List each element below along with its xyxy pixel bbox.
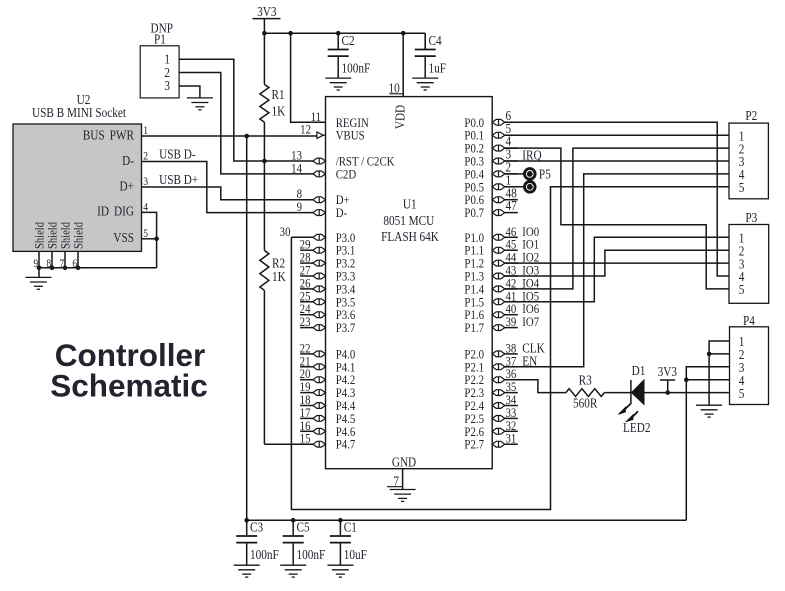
wire IO2 to P3.3 [505,262,729,264]
wire P0.2 to P3.5 [505,148,729,289]
svg-text:P2.7: P2.7 [464,437,484,452]
svg-text:30: 30 [280,224,291,239]
svg-text:LED2: LED2 [623,420,650,435]
pin 24 stub [300,314,315,316]
wire EN to P2.4 [505,174,729,367]
wire C4 feed [424,33,426,49]
svg-text:560R: 560R [573,396,598,411]
wire IRQ to P2.3 [505,160,729,162]
pin 10 label [389,81,404,96]
pin 22 symbol [313,351,326,357]
node junction VBUS/C3 [244,134,249,139]
svg-text:P1: P1 [154,32,166,47]
svg-text:P4: P4 [743,313,755,328]
pin 5 symbol [492,132,505,138]
wire VBUS drop to C3 [246,136,248,520]
svg-text:5: 5 [739,180,745,195]
wire R2 to P4.7 [264,443,315,445]
wire GND pin 7 [402,469,404,490]
svg-text:USB D-: USB D- [159,147,196,162]
resistor R1 1K [260,33,285,161]
pin 42 symbol [492,286,505,292]
svg-text:C2: C2 [342,33,355,48]
pin 25 stub [300,301,315,303]
wire P4.1 to ground [709,341,729,405]
pin 2 stub [505,173,518,175]
pin 38 stub [505,353,518,355]
pin 37 stub [505,366,518,368]
svg-text:Shield: Shield [58,222,72,249]
pin 44 symbol [492,260,505,266]
svg-text:23: 23 [300,314,311,329]
wire 3V3 rail [264,32,425,34]
power symbol 3V3 (LED) [658,364,677,392]
node junction 3V3/LED [665,390,670,395]
svg-text:VSS: VSS [113,230,134,245]
pin 31 stub [505,443,518,445]
U2 shield pin 8 [46,251,52,270]
svg-text:R1: R1 [272,87,285,102]
pin 30 stub [291,236,315,238]
svg-text:31: 31 [506,431,517,446]
U2 shield pin 7 [59,251,65,270]
node junction 3V3/REGIN [288,31,293,36]
wire P4.2 to ground [709,353,729,355]
pin 5 stub [505,134,518,136]
svg-text:47: 47 [506,198,517,213]
wire shield bus [39,267,157,269]
svg-text:39: 39 [506,314,517,329]
svg-text:P2: P2 [745,108,757,123]
pin 47 stub [505,212,518,214]
pin 46 symbol [492,234,505,240]
node shield 6 [76,266,81,271]
resistor R3 560R [566,372,605,410]
connector P5 pad 2 [525,182,536,193]
svg-text:USB D+: USB D+ [159,172,198,187]
pin 26 stub [300,288,315,290]
capacitor C2 100nF [325,33,370,90]
node junction C3 [244,518,249,523]
wire U2 VSS [142,238,157,240]
pin 15 stub [300,443,315,445]
svg-text:5: 5 [739,282,745,297]
wire VDD pin 10 [402,33,404,96]
U2 shield pin 6 [72,251,78,270]
title text [50,337,208,404]
capacitor C3 100nF [234,520,279,578]
pin 6 stub [505,121,518,123]
wire P1.1 to /RST [179,59,315,161]
pin 9 symbol [313,210,326,216]
pin 21 stub [300,366,315,368]
pin 13 symbol [313,158,326,164]
svg-text:3: 3 [164,78,170,93]
pin 45 stub [505,249,518,251]
pin 26 symbol [313,286,326,292]
pin 34 stub [505,405,518,407]
svg-text:1K: 1K [272,104,286,119]
node junction 3V3/VDD [401,31,406,36]
pin 4 stub [505,147,518,149]
pin 15 symbol [313,441,326,447]
svg-text:Shield: Shield [32,222,46,249]
svg-text:VDD: VDD [393,105,408,129]
svg-text:C4: C4 [429,33,442,48]
pin 1 stub [505,186,518,188]
pin 48 stub [505,199,518,201]
pin 12 symbol [317,132,323,138]
pin 35 stub [505,392,518,394]
wire P1.3 to ground [179,86,200,98]
svg-text:D1: D1 [632,363,646,378]
svg-text:P1.7: P1.7 [464,320,484,335]
pin 45 symbol [492,247,505,253]
svg-text:10uF: 10uF [344,547,367,562]
node junction 3V3/C2 [336,31,341,36]
pin 21 symbol [313,364,326,370]
pin 46 stub [505,236,518,238]
svg-text:FLASH 64K: FLASH 64K [381,229,439,244]
U2 shield pin 9 [33,251,39,270]
pin 17 stub [300,417,315,419]
svg-text:BUS PWR: BUS PWR [83,128,135,143]
pin 43 stub [505,275,518,277]
ground at P4 [696,405,722,417]
node shield 8 [50,266,55,271]
svg-text:IO7: IO7 [522,314,539,329]
pin 48 symbol [492,197,505,203]
svg-text:100nF: 100nF [342,60,371,75]
pin 42 stub [505,288,518,290]
svg-text:15: 15 [300,431,311,446]
svg-text:100nF: 100nF [297,547,326,562]
pin 38 symbol [492,351,505,357]
node junction 3V3/R1 [262,31,267,36]
node shield 7 [63,266,68,271]
pin 20 stub [300,379,315,381]
pin 24 symbol [313,312,326,318]
pin 3 symbol [492,158,505,164]
node junction C1 [338,518,343,523]
svg-text:11: 11 [311,109,321,124]
pin 30 symbol [313,234,326,240]
svg-text:U1: U1 [403,197,417,212]
svg-text:P0.7: P0.7 [464,205,484,220]
svg-text:USB B MINI Socket: USB B MINI Socket [32,105,127,120]
wire P4.4 join [686,379,729,381]
svg-text:Schematic: Schematic [50,368,208,404]
node junction C5 [291,518,296,523]
pin 28 stub [300,262,315,264]
svg-text:Shield: Shield [45,222,59,249]
power symbol 3V3 (top rail) [253,4,281,33]
svg-text:1K: 1K [272,269,286,284]
node junction VSS [154,237,159,242]
pin 23 stub [300,327,315,329]
pin 36 symbol [492,377,505,383]
pin 16 stub [300,430,315,432]
pin 29 stub [300,249,315,251]
node shield 9 [37,266,42,271]
pin 27 symbol [313,273,326,279]
wire P2.2 pin36 to R3 [505,380,566,393]
svg-text:Shield: Shield [71,222,85,249]
U1 name labels [381,197,439,244]
pin 33 symbol [492,416,505,422]
svg-text:3V3: 3V3 [257,4,276,19]
svg-text:P3.7: P3.7 [336,320,356,335]
pin 19 stub [300,392,315,394]
pin 16 symbol [313,428,326,434]
pin 27 stub [300,275,315,277]
svg-text:C1: C1 [344,520,357,535]
svg-text:R2: R2 [272,255,285,270]
pin 47 symbol [492,210,505,216]
wire P0.4 to P5 [505,173,525,175]
svg-text:ID DIG: ID DIG [97,204,134,219]
svg-text:R3: R3 [579,372,592,387]
pin 31 symbol [492,441,505,447]
wire IO4 to P2.2 [505,148,729,289]
pin 25 symbol [313,299,326,305]
pin 43 symbol [492,273,505,279]
svg-text:C2D: C2D [336,166,357,181]
pin 41 symbol [492,299,505,305]
pin 40 stub [505,314,518,316]
ground at U2 shield [25,277,51,289]
pin 18 symbol [313,403,326,409]
wire P0.0 to P3.4 [505,122,729,276]
wire U2 ID DIG loop [142,212,157,267]
wire shield stem [38,268,40,278]
pin 18 stub [300,405,315,407]
wire 3V3 to REGIN pin 11 [291,33,326,122]
svg-text:P4.7: P4.7 [336,437,356,452]
pin 33 stub [505,417,518,419]
svg-text:GND: GND [392,455,416,470]
svg-text:100nF: 100nF [250,547,279,562]
pin 37 symbol [492,364,505,370]
svg-text:D-: D- [336,205,347,220]
pin 2 symbol [492,171,505,177]
svg-text:C5: C5 [297,520,310,535]
pin 32 symbol [492,428,505,434]
pin 8 symbol [313,197,326,203]
USB socket U2 body [13,92,142,251]
wire P0.1 to P2.1 [505,134,729,136]
capacitor C5 100nF [280,520,325,578]
pin 35 symbol [492,390,505,396]
pin 14 symbol [313,171,326,177]
pin 19 symbol [313,390,326,396]
capacitor C4 1uF [412,33,446,90]
pin 1 symbol [492,184,505,190]
pin 34 symbol [492,403,505,409]
wire P0.5 to P5 [505,186,525,188]
connector P1 (DNP) [140,21,179,98]
node junction P4.2 [707,352,712,357]
pin 41 stub [505,301,518,303]
svg-text:1uF: 1uF [429,60,447,75]
wire R3 to D1 [604,392,631,394]
wire USB D- to pin 9 [142,162,316,213]
wire D1 to P4.5 [644,392,730,394]
node junction P4.4 [684,377,689,382]
svg-text:9: 9 [297,199,302,214]
svg-text:VBUS: VBUS [336,128,365,143]
pin 3 stub [505,160,518,162]
resistor R2 1K [260,161,286,444]
pin 23 symbol [313,325,326,331]
wire bottom VBUS rail [247,519,687,521]
pin 17 symbol [313,416,326,422]
svg-text:P5: P5 [539,167,551,182]
svg-text:5: 5 [739,386,745,401]
wire P4.3 to rail [686,367,729,520]
diode D1 LED [631,363,645,405]
pin 7 label [387,473,403,488]
svg-text:14: 14 [291,160,302,175]
svg-text:P3: P3 [745,210,757,225]
pin 36 stub [505,379,518,381]
wire P1.2 to C2D [179,73,315,174]
IC U1 8051 MCU body [326,97,493,469]
pin 39 stub [505,327,518,329]
pin 6 symbol [492,119,505,125]
pin 40 symbol [492,312,505,318]
connector P5 pad 1 [525,169,536,180]
pin 44 stub [505,262,518,264]
pin 32 stub [505,430,518,432]
svg-text:C3: C3 [250,520,263,535]
pin 29 symbol [313,247,326,253]
capacitor C1 10uF [327,520,367,578]
pin 39 symbol [492,325,505,331]
ground at U1 GND [390,490,416,502]
wire IO3 to P3.2 [505,250,729,276]
svg-text:12: 12 [300,122,311,137]
wire IO5 to P3.1 [505,237,729,301]
pin 22 stub [300,353,315,355]
wire USB D+ to pin 8 [142,187,316,200]
pin 28 symbol [313,260,326,266]
connector P3 [729,210,769,303]
svg-text:D-: D- [122,153,134,168]
svg-text:D+: D+ [120,178,134,193]
wire BUS PWR to VBUS pin 12 [142,135,318,137]
connector P4 [730,313,769,404]
pin 4 symbol [492,145,505,151]
ground at P1 [187,98,213,110]
node junction R1/R2//RST [262,159,267,164]
connector P2 [729,108,768,199]
pin 20 symbol [313,377,326,383]
svg-text:8051 MCU: 8051 MCU [383,213,434,228]
wire P3.0 net [291,187,729,510]
LED arrows [618,404,638,422]
svg-text:3V3: 3V3 [658,364,677,379]
